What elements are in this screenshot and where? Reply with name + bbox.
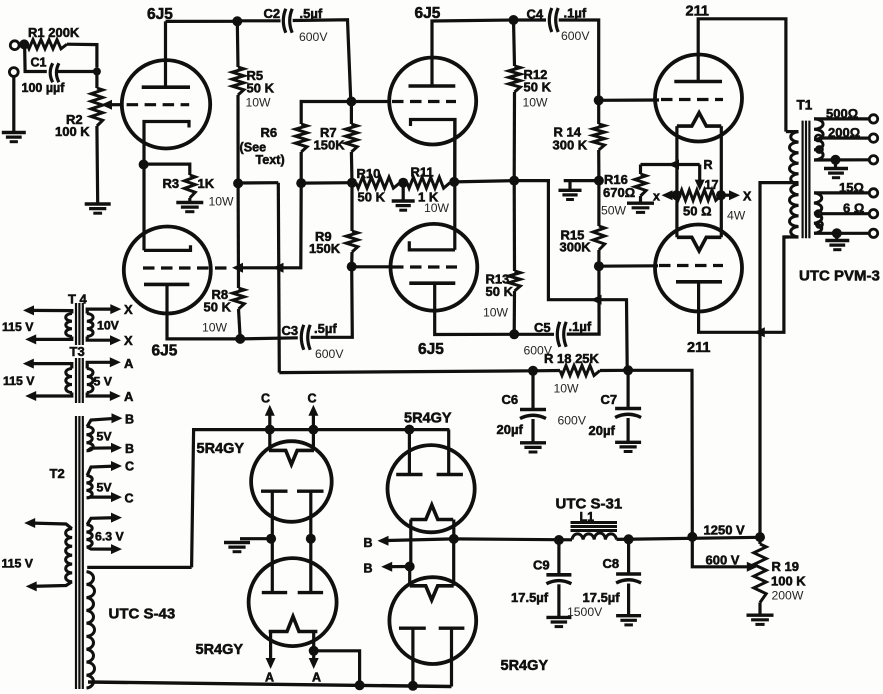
node R9 / V4 grid / C3 xyxy=(347,262,357,272)
svg-text:600V: 600V xyxy=(558,414,587,428)
node rail ground junction xyxy=(398,178,408,188)
arrow tap on R15 line xyxy=(591,295,602,305)
terminal 6ohm xyxy=(869,210,877,218)
terminal 500ohm xyxy=(869,115,877,123)
wire node to R5 xyxy=(236,21,240,67)
svg-text:C: C xyxy=(125,460,134,474)
wire R1 right to R2 top corner xyxy=(67,44,97,67)
svg-text:5R4GY: 5R4GY xyxy=(196,642,244,658)
node input junction xyxy=(19,39,29,49)
svg-text:600V: 600V xyxy=(561,29,590,43)
T3 core xyxy=(75,358,77,403)
svg-text:C4: C4 xyxy=(527,7,544,22)
svg-text:5 V: 5 V xyxy=(94,375,113,389)
wire C6 to ground xyxy=(531,419,534,442)
V1 plate lead xyxy=(164,21,167,87)
arrow tap on drop wire xyxy=(273,263,284,273)
V2 plate xyxy=(144,283,189,287)
arrow C right xyxy=(308,405,318,416)
T2 5V2 top lead C xyxy=(87,466,117,475)
resistor R14 xyxy=(593,124,605,150)
wire wiper to R16 xyxy=(639,165,642,175)
wire V3 cathode to V4 cathode xyxy=(453,121,456,250)
V4 plate xyxy=(409,281,455,285)
node C8 xyxy=(624,534,634,544)
svg-text:50 K: 50 K xyxy=(247,81,275,96)
svg-text:R 19: R 19 xyxy=(772,559,799,574)
wire plate junction to C3 xyxy=(240,338,298,339)
svg-text:C1: C1 xyxy=(31,56,47,70)
wire R12 to rail xyxy=(513,92,516,181)
wire R13 to plate node xyxy=(513,291,516,334)
ground C8 xyxy=(616,614,641,617)
V7 plate 2 xyxy=(297,490,324,493)
V5 plate lead xyxy=(698,19,786,132)
svg-text:6J5: 6J5 xyxy=(418,341,444,358)
wire node to R12 xyxy=(514,20,515,66)
T1 secondary lower winding xyxy=(814,193,822,233)
svg-text:X: X xyxy=(124,302,133,317)
svg-text:R10: R10 xyxy=(357,166,381,181)
T1 sec lower common lead xyxy=(814,232,869,235)
capacitor C3 xyxy=(301,325,304,350)
filament box right side xyxy=(720,126,723,237)
svg-text:17.5µf: 17.5µf xyxy=(583,590,621,605)
T3 secondary winding xyxy=(87,369,93,393)
capacitor C6 xyxy=(520,408,546,412)
wire J2 down to ground xyxy=(12,76,15,132)
T3 primary winding xyxy=(66,369,72,393)
ground rail mid xyxy=(559,189,582,192)
wire V1 cathode to V2 cathode xyxy=(142,165,145,251)
V1 plate xyxy=(142,85,190,89)
ground T1 upper xyxy=(824,167,848,170)
V1 cathode xyxy=(144,122,189,165)
terminal common upper xyxy=(869,156,877,164)
svg-text:10W: 10W xyxy=(202,321,228,335)
svg-text:15Ω: 15Ω xyxy=(839,180,864,195)
node rail R7/R9 xyxy=(347,178,357,188)
resistor R18 xyxy=(560,366,600,376)
resistor R15 xyxy=(593,226,605,250)
wire R19 to ground xyxy=(758,603,761,615)
T2 HV winding xyxy=(87,572,95,688)
V10 plate 1 xyxy=(399,627,426,630)
tube V5 211 envelope xyxy=(655,55,742,142)
T2 5V1 top lead B xyxy=(87,418,118,426)
T1 core xyxy=(801,121,803,239)
capacitor C7 xyxy=(615,407,641,411)
T1 sec upper top lead 500ohm xyxy=(814,117,869,120)
svg-text:6J5: 6J5 xyxy=(152,343,178,360)
svg-text:50 K: 50 K xyxy=(486,284,514,299)
svg-text:T3: T3 xyxy=(70,344,85,359)
input terminal J1 (top) xyxy=(10,41,19,50)
terminal 200ohm xyxy=(869,134,877,142)
node plate V1 / R5 / C2 xyxy=(232,16,242,26)
wire node to V4 grid xyxy=(352,265,391,268)
T2 6.3V bottom lead xyxy=(87,547,117,549)
node V4 plate / R13 / C5 xyxy=(509,329,519,339)
svg-text:X: X xyxy=(124,333,133,348)
V9 plate 2 lead xyxy=(447,430,450,474)
svg-text:5V: 5V xyxy=(97,481,113,495)
svg-text:100 µµf: 100 µµf xyxy=(22,81,66,95)
wire C4 to 211 grid node xyxy=(559,20,599,100)
wire node to C5 xyxy=(514,333,554,336)
wire V1 plate to node xyxy=(166,20,238,23)
T2 6.3V winding xyxy=(87,525,93,548)
svg-text:20µf: 20µf xyxy=(497,422,524,437)
svg-text:UTC PVM-3: UTC PVM-3 xyxy=(799,268,880,285)
wire sec upper gnd stem xyxy=(834,160,837,168)
T2 5V2 bottom lead C xyxy=(87,496,117,500)
node rail R12/R13 xyxy=(509,176,519,186)
svg-text:.5µf: .5µf xyxy=(314,321,337,336)
ground C7 xyxy=(615,441,641,444)
resistor R5 xyxy=(232,67,244,95)
svg-text:10V: 10V xyxy=(97,319,120,333)
wire R2 top xyxy=(95,72,98,89)
node R14/R15 ground node xyxy=(594,176,604,186)
node R17 right xyxy=(716,190,726,200)
svg-text:600 V: 600 V xyxy=(706,553,740,568)
svg-text:5R4GY: 5R4GY xyxy=(404,411,452,427)
wire C2 to R7 top corner xyxy=(293,20,351,102)
T4 secondary winding xyxy=(87,314,93,337)
svg-text:50 K: 50 K xyxy=(524,80,552,95)
V2 cathode xyxy=(144,245,191,250)
resistor R8 xyxy=(233,288,245,309)
wire J1 to node xyxy=(19,43,24,47)
V6 grid (dashed) xyxy=(659,264,723,267)
node C1/R2 junction xyxy=(93,68,101,76)
wire C8 lead xyxy=(627,539,630,573)
node bus C6 xyxy=(528,366,538,376)
svg-text:6 Ω: 6 Ω xyxy=(843,200,864,215)
V10 filament xyxy=(410,586,454,600)
V10 filament lead left xyxy=(408,567,411,586)
node V2 plate / R8 xyxy=(235,334,245,344)
V9 plate 2 xyxy=(437,473,463,476)
V8 plate 1 lead xyxy=(271,539,274,593)
resistor R3 xyxy=(184,175,195,198)
V4 cathode xyxy=(409,241,455,250)
tube V3 6J5 envelope xyxy=(389,58,476,145)
wire R8 to plate wire xyxy=(239,309,241,339)
wire R2 bottom to ground xyxy=(95,126,99,204)
wiper arrow V1 grid to R2 xyxy=(106,103,120,106)
node B2 xyxy=(405,562,415,572)
node B1 xyxy=(449,534,459,544)
T4 primary bottom lead xyxy=(30,337,72,340)
svg-text:C: C xyxy=(125,492,134,506)
ground C9 xyxy=(546,616,571,619)
svg-text:x: x xyxy=(653,190,660,204)
node 1250V R19 xyxy=(755,532,765,542)
wire rail to R10 xyxy=(352,181,356,184)
svg-text:C6: C6 xyxy=(502,392,519,407)
svg-text:Text): Text) xyxy=(256,153,285,167)
T3 primary bottom lead xyxy=(30,393,72,397)
svg-text:R3: R3 xyxy=(163,176,180,191)
wire C8 to ground xyxy=(627,584,630,616)
svg-text:T1: T1 xyxy=(797,98,813,113)
node filament rail left xyxy=(265,425,275,435)
choke L1 winding xyxy=(572,533,617,540)
V6 plate lead xyxy=(699,237,789,332)
resistor R7 xyxy=(346,124,358,152)
wire bus left riser xyxy=(279,371,533,373)
svg-text:10W: 10W xyxy=(554,382,580,396)
V6 plate xyxy=(676,280,722,284)
wire cathode to R3 xyxy=(144,164,190,175)
ground rectifier mid xyxy=(224,541,250,544)
svg-text:R: R xyxy=(704,158,713,172)
svg-text:50 K: 50 K xyxy=(358,190,386,205)
ground mid rail xyxy=(392,199,415,202)
svg-text:C2: C2 xyxy=(264,6,281,21)
svg-text:A: A xyxy=(124,356,134,371)
wire R5-line rail to R8 xyxy=(237,183,241,288)
wire C3 to R9 node xyxy=(311,267,353,338)
tube V9 5R4GY envelope xyxy=(388,445,475,532)
wire A-node to bottom rail xyxy=(314,651,360,686)
V2 grid (dashed) xyxy=(143,266,228,269)
wire rail to R12 line xyxy=(454,181,514,182)
svg-text:C: C xyxy=(261,392,270,406)
svg-text:10W: 10W xyxy=(209,195,235,209)
svg-text:A: A xyxy=(265,671,274,685)
capacitor C9 xyxy=(546,573,571,577)
wire gnd stem xyxy=(568,181,571,190)
svg-text:150K: 150K xyxy=(314,138,346,153)
T1 sec lower unused tap xyxy=(816,221,822,227)
V3 cathode xyxy=(411,120,456,182)
capacitor C2 xyxy=(283,9,286,33)
V7 filament lead left xyxy=(268,411,271,451)
tube V4 6J5 envelope xyxy=(391,224,478,311)
wire R14 to gnd node xyxy=(597,150,600,181)
svg-text:C9: C9 xyxy=(533,558,550,573)
V9 filament lead left xyxy=(409,520,412,567)
svg-text:R11: R11 xyxy=(411,165,434,180)
svg-text:600V: 600V xyxy=(315,347,344,361)
wire node to R14 xyxy=(597,100,600,124)
svg-text:300K: 300K xyxy=(560,240,592,255)
svg-text:1500V: 1500V xyxy=(567,605,603,619)
wire C6 lead xyxy=(531,371,534,408)
svg-text:.1µf: .1µf xyxy=(564,6,587,21)
T1 sec upper common lead xyxy=(814,158,869,161)
V9 plate 1 xyxy=(396,473,422,476)
svg-text:B: B xyxy=(125,442,134,456)
tube V1 6J5 envelope xyxy=(122,60,210,148)
V7 filament xyxy=(269,450,314,464)
V8 plate 2 lead xyxy=(309,539,312,593)
V4 grid (dashed) xyxy=(392,265,457,268)
V1 grid (dashed) xyxy=(127,103,190,106)
dot R5 rail xyxy=(233,178,243,188)
node V3 plate / C4 / R12 xyxy=(509,15,519,25)
svg-text:10W: 10W xyxy=(523,96,549,110)
V10 filament lead right xyxy=(452,539,455,586)
terminal 15ohm xyxy=(869,189,877,197)
wire C5 up to R15 node xyxy=(567,266,599,334)
wire rail drop (R5 branch) xyxy=(278,183,279,373)
node R17 left xyxy=(672,190,682,200)
wire B1 line to L1 xyxy=(454,537,572,541)
V3 plate xyxy=(409,84,456,88)
node A right xyxy=(309,646,319,656)
V8 filament lead left xyxy=(269,632,272,663)
V3 grid (dashed) xyxy=(392,100,456,103)
ground R19 xyxy=(747,614,774,617)
input terminal J2 (bottom) xyxy=(9,68,18,77)
wire node to R15 xyxy=(597,181,600,226)
svg-text:B: B xyxy=(125,413,134,427)
svg-text:A: A xyxy=(124,389,134,404)
wire junction to ground xyxy=(240,537,271,540)
R17 wiper arrow xyxy=(698,165,701,184)
wire R16 to ground xyxy=(639,196,642,203)
capacitor C5 xyxy=(557,322,560,347)
wire ground stem R10/R11 xyxy=(402,183,405,201)
svg-text:10W: 10W xyxy=(246,96,272,110)
V8 plate 2 xyxy=(298,591,323,594)
wire R9 to node xyxy=(350,252,353,267)
wire C7 lead xyxy=(626,370,629,407)
svg-text:X: X xyxy=(743,190,752,204)
wire R5 to rail xyxy=(236,95,239,183)
resistor R19 xyxy=(754,544,766,603)
tube V6 211 envelope xyxy=(655,225,742,312)
resistor R11 xyxy=(407,177,450,188)
filament box left side xyxy=(675,126,678,237)
T1 sec lower top lead 15ohm xyxy=(814,191,869,194)
svg-text:C7: C7 xyxy=(601,392,618,407)
wire grid node to V5 grid xyxy=(599,98,659,102)
T3 secondary top lead A xyxy=(87,362,116,368)
svg-text:115 V: 115 V xyxy=(2,320,34,334)
T2 5V winding 2 xyxy=(87,475,93,498)
node bottom rail riser xyxy=(355,680,365,690)
T2 core xyxy=(75,416,77,689)
wire node to R6 corner xyxy=(301,102,351,125)
wire rail R5-dot to drop corner xyxy=(238,181,278,185)
capacitor C8 xyxy=(616,572,641,576)
V9 filament xyxy=(410,505,453,520)
arrow C left xyxy=(265,405,275,416)
T2 primary top lead xyxy=(29,523,72,529)
wire C7 to ground xyxy=(626,418,629,442)
node bottom rail V10 xyxy=(408,681,418,691)
wire R19 top xyxy=(758,537,761,544)
svg-text:C5: C5 xyxy=(534,320,551,335)
wire node to C4 xyxy=(514,18,547,21)
V8 plate 1 xyxy=(262,591,287,594)
svg-text:B: B xyxy=(364,536,373,550)
svg-text:B: B xyxy=(364,562,373,576)
wire rail to R9 xyxy=(350,183,353,231)
wire HV riser xyxy=(192,430,450,568)
svg-text:50W: 50W xyxy=(601,204,627,218)
T4 primary winding xyxy=(66,314,72,337)
wire R3 to ground xyxy=(188,198,191,202)
V5 filament xyxy=(677,113,721,126)
wire B1 arrow xyxy=(382,539,454,541)
ground R16 xyxy=(627,201,654,204)
V10 plate 2 xyxy=(439,627,465,630)
svg-text:200W: 200W xyxy=(772,589,804,603)
T1 primary bottom lead xyxy=(784,235,799,238)
node V1 cathode junction xyxy=(139,160,149,170)
svg-text:10W: 10W xyxy=(483,306,509,320)
resistor R16 xyxy=(635,174,646,196)
wire node to C2 xyxy=(237,19,280,22)
svg-text:.5µf: .5µf xyxy=(300,6,323,21)
svg-text:1250 V: 1250 V xyxy=(704,523,746,538)
V6 filament xyxy=(677,237,721,251)
resistor R1 xyxy=(27,40,67,49)
svg-text:6.3 V: 6.3 V xyxy=(95,530,125,544)
svg-text:50 K: 50 K xyxy=(204,300,232,315)
potentiometer R2 xyxy=(91,88,103,126)
svg-text:C8: C8 xyxy=(603,556,620,571)
wire X left xyxy=(666,194,677,197)
node C2/R6/R7/V3-grid xyxy=(346,97,356,107)
svg-text:17: 17 xyxy=(705,178,719,192)
svg-text:150K: 150K xyxy=(309,241,341,256)
svg-text:100 K: 100 K xyxy=(55,124,90,139)
T4 secondary bottom lead X xyxy=(87,337,116,341)
T2 HV top lead xyxy=(87,566,191,569)
ground R3 xyxy=(176,201,203,204)
node rail R6 xyxy=(296,178,306,188)
svg-text:A: A xyxy=(312,671,321,685)
bottom rail xyxy=(88,682,452,687)
svg-text:R1 200K: R1 200K xyxy=(28,25,80,40)
T4 secondary top lead X xyxy=(87,309,116,313)
resistor R6 xyxy=(295,124,307,152)
wire C9 to ground xyxy=(557,584,560,616)
wire R6 bottom to V2 grid arrows xyxy=(238,183,301,268)
wire R13-node to arrow crossing xyxy=(514,181,627,369)
wire L1 to R19 node xyxy=(617,537,761,539)
wire rail R6 to R7 xyxy=(301,181,352,185)
svg-text:17.5µf: 17.5µf xyxy=(511,590,549,605)
arrow tap on R8 line xyxy=(232,263,243,273)
wire ground spur xyxy=(564,179,599,182)
T1 sec unused tap xyxy=(816,146,822,152)
svg-text:500Ω: 500Ω xyxy=(826,106,858,121)
T2 5V winding 1 xyxy=(87,426,94,451)
ground T1 lower xyxy=(825,239,849,242)
svg-text:100 K: 100 K xyxy=(771,574,806,589)
svg-text:T 4: T 4 xyxy=(68,292,88,307)
node V7/V8 right xyxy=(306,534,316,544)
svg-text:C: C xyxy=(308,392,317,406)
svg-text:115 V: 115 V xyxy=(3,374,35,388)
wire node down to C1 xyxy=(25,44,47,71)
node filament rail right xyxy=(308,425,318,435)
arrow A left xyxy=(266,658,276,669)
node sec upper ground xyxy=(831,155,841,165)
node rail cathode V3/V4 xyxy=(449,177,459,187)
wire X right xyxy=(721,194,735,197)
V8 filament xyxy=(269,617,318,632)
svg-text:211: 211 xyxy=(687,340,710,356)
